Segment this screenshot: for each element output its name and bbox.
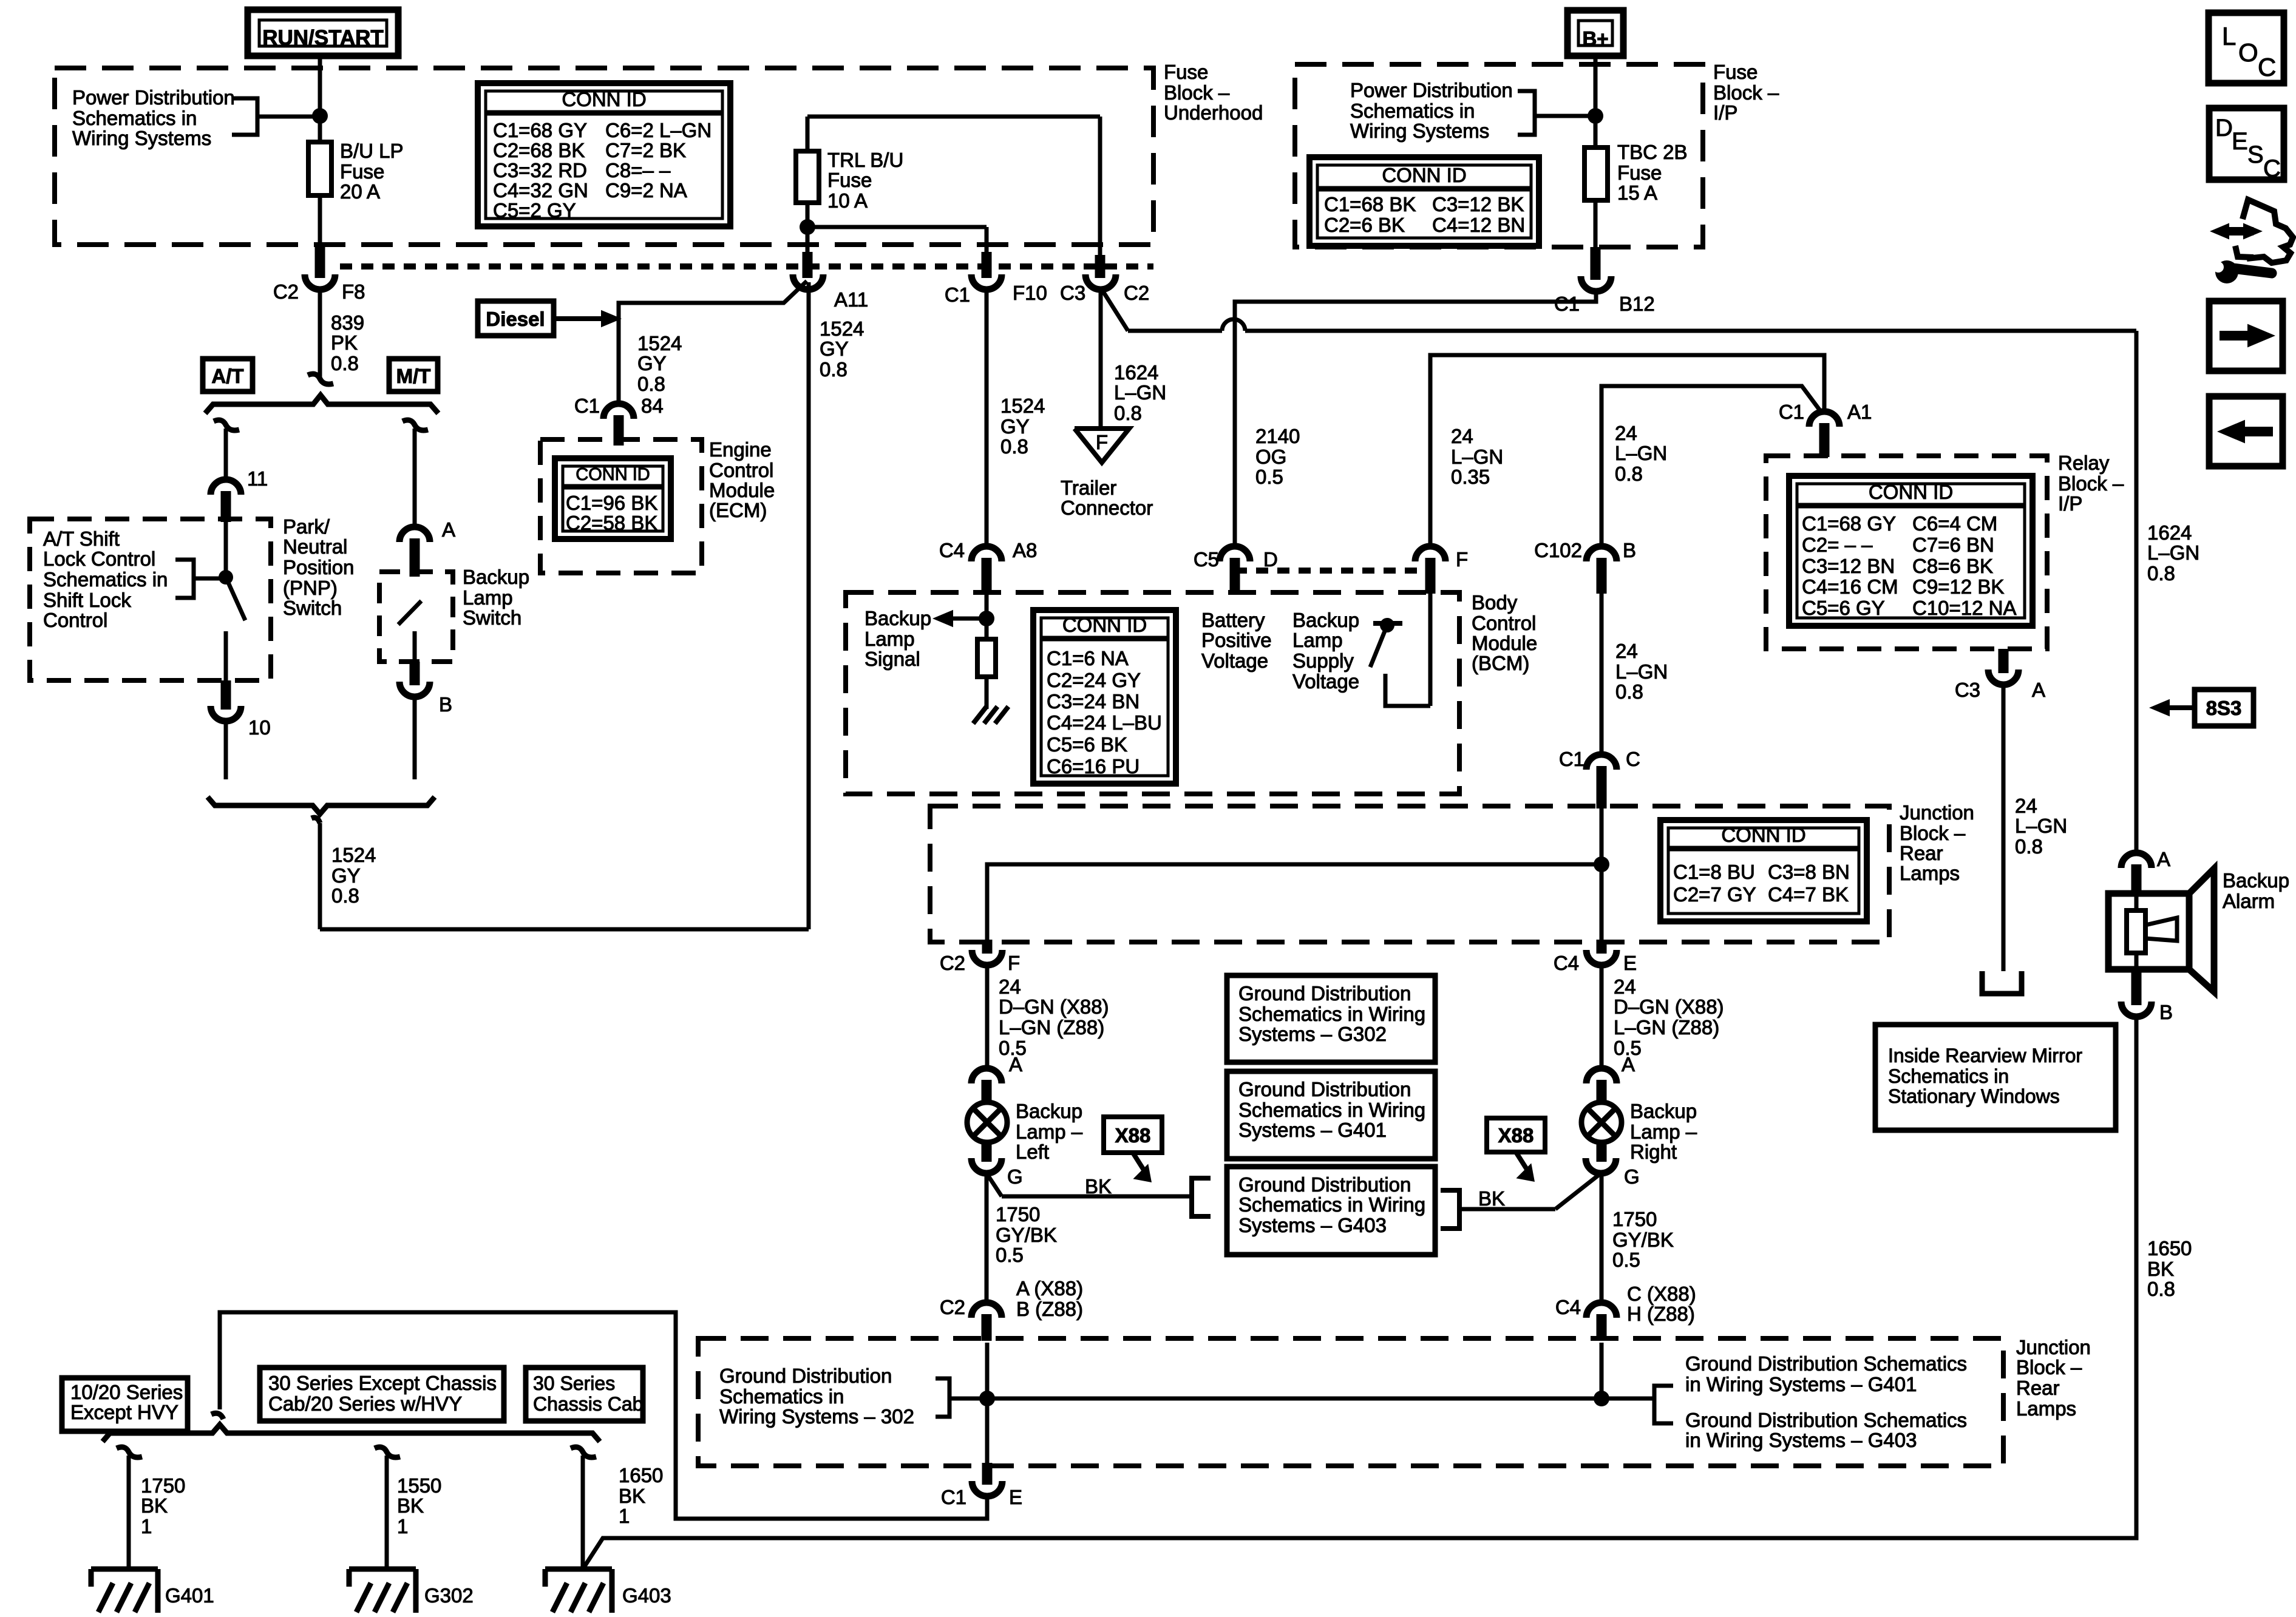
ground G302 xyxy=(349,1569,474,1613)
label A left lamp pin xyxy=(1009,1053,1022,1076)
connector B alarm xyxy=(2121,969,2173,1023)
ground G401 xyxy=(91,1569,214,1613)
svg-text:BK: BK xyxy=(1478,1187,1505,1210)
resistor backup lamp signal xyxy=(977,639,996,709)
label Body Control Module BCM xyxy=(1472,591,1537,674)
svg-text:C: C xyxy=(2258,53,2276,81)
svg-text:Shift Lock: Shift Lock xyxy=(43,589,131,611)
svg-text:0.5: 0.5 xyxy=(1612,1249,1640,1271)
svg-text:0.8: 0.8 xyxy=(2147,562,2175,585)
svg-text:B/U LP: B/U LP xyxy=(340,140,404,162)
svg-text:0.8: 0.8 xyxy=(2015,835,2043,858)
svg-text:C1=96 BK: C1=96 BK xyxy=(566,492,657,514)
svg-text:24: 24 xyxy=(1615,640,1638,662)
ground bus wire xyxy=(949,1391,1654,1406)
svg-text:GY/BK: GY/BK xyxy=(996,1224,1057,1246)
svg-text:OG: OG xyxy=(1255,446,1286,468)
svg-text:L–GN: L–GN xyxy=(1114,381,1166,404)
svg-text:E: E xyxy=(2232,128,2248,155)
svg-text:C7=6 BN: C7=6 BN xyxy=(1912,534,1994,556)
wire alarm return xyxy=(583,1017,2136,1569)
svg-text:Supply: Supply xyxy=(1292,649,1354,672)
connector C1 F10 xyxy=(945,252,1047,546)
svg-text:C1: C1 xyxy=(574,395,600,417)
label wire 1624 L-GN 0.8 right xyxy=(2147,521,2199,585)
svg-text:Block –: Block – xyxy=(1164,81,1230,104)
svg-text:F: F xyxy=(1008,952,1020,974)
svg-text:1: 1 xyxy=(397,1515,408,1537)
svg-text:L–GN (Z88): L–GN (Z88) xyxy=(999,1016,1104,1039)
label Fuse Block IP xyxy=(1713,61,1779,124)
svg-text:A8: A8 xyxy=(1013,539,1037,561)
lamp backup left xyxy=(967,1102,1007,1142)
svg-text:Lamp: Lamp xyxy=(1292,629,1343,651)
svg-text:Signal: Signal xyxy=(864,648,920,670)
lamp backup right xyxy=(1581,1102,1622,1142)
svg-text:C3: C3 xyxy=(1955,679,1980,701)
hook wire end above brace xyxy=(308,374,333,384)
label Ground Distribution 302 xyxy=(719,1364,914,1428)
svg-text:0.8: 0.8 xyxy=(2147,1278,2175,1300)
wire trailer drop xyxy=(1099,290,1103,427)
svg-text:0.8: 0.8 xyxy=(820,358,847,381)
label wire left lamp feed xyxy=(999,975,1109,1059)
label wire 2140 OG 0.5 xyxy=(1255,425,1300,488)
svg-text:1524: 1524 xyxy=(637,332,682,354)
brace transmission split xyxy=(205,395,438,413)
svg-text:0.8: 0.8 xyxy=(1615,680,1643,703)
svg-text:TRL B/U: TRL B/U xyxy=(827,149,903,171)
node junction dot power distribution tap xyxy=(312,108,328,124)
svg-text:Fuse: Fuse xyxy=(1713,61,1758,83)
wire junction internal xyxy=(987,856,1609,942)
box ground dist G403 xyxy=(1227,1167,1435,1255)
svg-text:10: 10 xyxy=(248,716,271,739)
label wire 1750 GY/BK 0.5 right xyxy=(1612,1208,1674,1271)
svg-text:24: 24 xyxy=(999,975,1021,998)
svg-text:C8=6 BK: C8=6 BK xyxy=(1912,555,1993,577)
label BK right xyxy=(1478,1187,1505,1210)
label wire 1524 GY 0.8 diesel xyxy=(637,332,682,395)
svg-text:C6=4 CM: C6=4 CM xyxy=(1912,512,1997,535)
svg-text:Control: Control xyxy=(709,459,773,481)
label Park Neutral Position PNP Switch xyxy=(283,515,354,619)
svg-text:A: A xyxy=(1622,1053,1635,1076)
wire RUN/START to fuse xyxy=(318,56,322,142)
connector C1 A1 relay xyxy=(1779,401,1872,457)
svg-text:C9=2 NA: C9=2 NA xyxy=(605,179,687,202)
svg-text:B12: B12 xyxy=(1619,293,1655,315)
wire TRL fuse lower xyxy=(800,203,987,255)
label wire 1524 GY 0.8 F10 xyxy=(1000,395,1045,458)
svg-text:CONN ID: CONN ID xyxy=(1721,824,1805,846)
svg-text:(PNP): (PNP) xyxy=(283,577,338,599)
svg-text:C10=12 NA: C10=12 NA xyxy=(1912,597,2017,619)
connector 10 xyxy=(211,680,271,779)
svg-text:Fuse: Fuse xyxy=(827,169,872,191)
label Trailer Connector xyxy=(1061,476,1153,519)
dashed box A/T shift lock control xyxy=(30,519,271,680)
svg-text:Wiring Systems: Wiring Systems xyxy=(72,127,211,149)
svg-text:D–GN (X88): D–GN (X88) xyxy=(999,995,1109,1018)
svg-text:B+: B+ xyxy=(1582,27,1608,50)
svg-text:GY/BK: GY/BK xyxy=(1612,1229,1674,1251)
svg-text:Lamps: Lamps xyxy=(1900,862,1960,884)
fuse block underhood dashed box xyxy=(55,68,1153,245)
label wire 24 L-GN 0.8 C102 xyxy=(1615,640,1668,703)
svg-text:CONN ID: CONN ID xyxy=(1382,164,1466,186)
svg-text:0.8: 0.8 xyxy=(637,373,665,395)
label Ground Distribution G403 xyxy=(1685,1409,1967,1451)
svg-text:L–GN: L–GN xyxy=(1451,446,1503,468)
label 11 wire xyxy=(0,0,1,1)
connector C3 A relay xyxy=(1955,649,2045,971)
fuse TRL B/U 10A xyxy=(796,117,1100,255)
svg-text:0.5: 0.5 xyxy=(1255,466,1283,488)
label Backup Lamp Supply Voltage xyxy=(1292,609,1359,693)
svg-text:8S3: 8S3 xyxy=(2206,697,2242,719)
speaker backup alarm xyxy=(2108,869,2214,992)
svg-text:1524: 1524 xyxy=(820,317,864,340)
svg-text:Battery: Battery xyxy=(1201,609,1265,631)
label B/U LP Fuse 20 A xyxy=(340,140,404,203)
dashed box relay block IP xyxy=(1766,456,2047,649)
svg-text:Backup: Backup xyxy=(864,607,931,629)
svg-text:C6=16 PU: C6=16 PU xyxy=(1047,755,1140,778)
connector A left lamp xyxy=(971,1068,1002,1103)
svg-text:C1=68 GY: C1=68 GY xyxy=(493,119,587,141)
connector C1 B12 xyxy=(1554,200,1655,315)
svg-text:S: S xyxy=(2247,141,2264,168)
svg-text:G401: G401 xyxy=(165,1584,214,1607)
svg-text:C2=7 GY: C2=7 GY xyxy=(1673,883,1756,906)
svg-text:24: 24 xyxy=(1614,975,1636,998)
svg-text:Inside Rearview Mirror: Inside Rearview Mirror xyxy=(1888,1045,2082,1066)
svg-text:Relay: Relay xyxy=(2058,452,2110,474)
svg-text:E: E xyxy=(1009,1486,1022,1508)
svg-text:in Wiring Systems – G403: in Wiring Systems – G403 xyxy=(1685,1429,1917,1451)
connector bracket to mirror schematic xyxy=(1982,971,2022,994)
wire B+ to fuse xyxy=(1588,56,1603,147)
svg-text:X88: X88 xyxy=(1115,1124,1151,1147)
svg-text:C2=58 BK: C2=58 BK xyxy=(566,512,657,534)
label Backup Lamp Left xyxy=(1016,1100,1083,1163)
svg-text:10 A: 10 A xyxy=(827,189,868,212)
box 10/20 series except HVY xyxy=(62,1378,188,1431)
wire A/T branch xyxy=(214,420,239,480)
wire BCM F to relay A1 xyxy=(1430,355,1824,546)
label C1 BCM bottom xyxy=(1559,748,1640,770)
svg-text:A: A xyxy=(442,518,455,541)
label 1650 BK 1 xyxy=(619,1464,663,1527)
bracket left lamp ground ref xyxy=(1192,1178,1211,1216)
svg-text:Schematics in: Schematics in xyxy=(1350,100,1475,122)
svg-text:C4=7 BK: C4=7 BK xyxy=(1768,883,1849,906)
svg-text:24: 24 xyxy=(1615,422,1637,444)
svg-text:C4: C4 xyxy=(939,539,965,561)
svg-text:Lamp –: Lamp – xyxy=(1016,1120,1083,1143)
label A right lamp pin xyxy=(1622,1053,1635,1076)
svg-text:Power Distribution: Power Distribution xyxy=(1350,79,1513,101)
svg-text:Backup: Backup xyxy=(1292,609,1359,631)
svg-text:Park/: Park/ xyxy=(283,515,330,538)
svg-text:C8=– –: C8=– – xyxy=(605,159,671,181)
svg-text:Connector: Connector xyxy=(1061,497,1153,519)
ground G403 xyxy=(545,1569,671,1613)
svg-text:0.8: 0.8 xyxy=(1615,463,1643,485)
label Ground Distribution G401 xyxy=(1685,1352,1967,1395)
power node B+ box xyxy=(1567,10,1623,56)
svg-text:Except HVY: Except HVY xyxy=(70,1401,178,1423)
svg-text:Backup: Backup xyxy=(1630,1100,1697,1122)
label A X88 B Z88 left xyxy=(1016,1277,1083,1320)
svg-text:Position: Position xyxy=(283,556,354,578)
dashed box ECM xyxy=(540,439,702,573)
wire merged 1524 GY to right xyxy=(311,282,809,929)
svg-text:C2=68 BK: C2=68 BK xyxy=(493,139,585,161)
svg-text:24: 24 xyxy=(1451,425,1473,447)
svg-text:C1=68 GY: C1=68 GY xyxy=(1802,512,1896,535)
svg-text:Alarm: Alarm xyxy=(2223,890,2275,912)
svg-text:M/T: M/T xyxy=(396,365,431,387)
wire diesel to ECM xyxy=(619,281,807,403)
label wire 24 L-GN 0.8 relay out xyxy=(2015,795,2067,858)
svg-text:Systems – G403: Systems – G403 xyxy=(1238,1214,1387,1236)
connector A11 xyxy=(793,252,868,311)
svg-text:C1: C1 xyxy=(945,283,970,306)
svg-text:Lamp –: Lamp – xyxy=(1630,1120,1697,1143)
svg-text:Wiring Systems: Wiring Systems xyxy=(1350,120,1489,142)
svg-text:1650: 1650 xyxy=(619,1464,663,1486)
box 30 series chassis cab xyxy=(526,1368,643,1421)
svg-text:Left: Left xyxy=(1016,1141,1049,1163)
svg-text:L: L xyxy=(2222,22,2236,50)
connector C4 E junction xyxy=(1554,940,1637,1070)
svg-text:C2: C2 xyxy=(940,952,965,974)
svg-text:Control: Control xyxy=(1472,612,1536,634)
arrow diesel xyxy=(554,310,622,328)
label wire 1624 L-GN 0.8 trailer xyxy=(1114,361,1166,424)
svg-text:BK: BK xyxy=(397,1494,424,1517)
svg-text:L–GN: L–GN xyxy=(2015,815,2067,837)
svg-text:D: D xyxy=(2215,115,2233,141)
svg-text:H (Z88): H (Z88) xyxy=(1627,1303,1695,1325)
svg-text:Voltage: Voltage xyxy=(1201,649,1268,672)
label Fuse Block Underhood xyxy=(1164,61,1263,124)
svg-text:Lock Control: Lock Control xyxy=(43,547,155,570)
icon box LOC xyxy=(2209,13,2284,83)
svg-text:Chassis Cab: Chassis Cab xyxy=(533,1393,643,1415)
svg-text:1: 1 xyxy=(619,1505,630,1527)
fuse F8 B/U LP 20A xyxy=(308,142,331,245)
svg-text:C4: C4 xyxy=(1554,952,1579,974)
svg-text:Switch: Switch xyxy=(463,606,521,629)
label C4 right bottom xyxy=(1555,1296,1581,1318)
svg-text:1624: 1624 xyxy=(2147,521,2192,544)
icon car wrench xyxy=(2210,200,2293,283)
wire right lamp ground xyxy=(1459,1173,1601,1209)
wire C vertical junction xyxy=(1600,808,1604,942)
svg-text:Block –: Block – xyxy=(2058,472,2124,495)
connector C4 A8 xyxy=(939,539,1038,594)
svg-text:20 A: 20 A xyxy=(340,180,380,203)
svg-text:A (X88): A (X88) xyxy=(1016,1277,1083,1300)
label C2 left bottom xyxy=(940,1296,965,1318)
bracket shift lock reference xyxy=(175,560,222,598)
connector A alarm xyxy=(2121,848,2170,893)
svg-text:C5=6 BK: C5=6 BK xyxy=(1047,733,1127,756)
svg-text:C2= – –: C2= – – xyxy=(1802,534,1873,556)
box ground dist G302 xyxy=(1227,975,1435,1062)
svg-text:CONN ID: CONN ID xyxy=(1869,481,1953,503)
svg-text:0.8: 0.8 xyxy=(331,884,359,907)
svg-text:X88: X88 xyxy=(1498,1124,1534,1147)
label F8 xyxy=(342,280,365,303)
brace series split xyxy=(103,1425,600,1442)
svg-text:Backup: Backup xyxy=(463,566,529,588)
svg-text:Ground Distribution: Ground Distribution xyxy=(1238,1173,1411,1196)
svg-text:(BCM): (BCM) xyxy=(1472,652,1529,674)
dotted connector strip underhood xyxy=(340,263,1153,269)
connector C1 C xyxy=(1586,594,1617,808)
svg-text:0.8: 0.8 xyxy=(1114,402,1142,424)
dashed box backup lamp switch xyxy=(379,572,453,662)
svg-text:O: O xyxy=(2238,38,2258,67)
icon box arrow right xyxy=(2209,301,2283,371)
svg-text:1624: 1624 xyxy=(1114,361,1158,384)
brace transmission merge xyxy=(208,797,435,814)
label wire 839 PK 0.8 xyxy=(331,311,364,375)
svg-text:C2=6 BK: C2=6 BK xyxy=(1324,214,1405,236)
label TRL B/U Fuse 10 A xyxy=(827,149,903,212)
svg-text:GY: GY xyxy=(820,337,849,360)
ground BCM internal xyxy=(973,707,1008,724)
svg-text:C5: C5 xyxy=(1194,548,1219,571)
svg-text:1650: 1650 xyxy=(2147,1237,2192,1259)
connector 11 xyxy=(211,467,268,522)
svg-text:Schematics in Wiring: Schematics in Wiring xyxy=(1238,1193,1425,1216)
label Junction Block Rear Lamps xyxy=(1900,801,1974,884)
switch backup lamp manual xyxy=(398,601,421,662)
svg-text:A/T Shift: A/T Shift xyxy=(43,527,120,550)
svg-text:1: 1 xyxy=(141,1515,152,1537)
svg-text:F: F xyxy=(1096,431,1108,453)
svg-text:C3=8 BN: C3=8 BN xyxy=(1768,861,1850,883)
svg-text:30 Series: 30 Series xyxy=(533,1372,615,1394)
svg-text:1524: 1524 xyxy=(331,844,376,866)
svg-text:84: 84 xyxy=(641,395,664,417)
svg-text:I/P: I/P xyxy=(1713,101,1737,124)
svg-text:E: E xyxy=(1623,952,1637,974)
svg-text:Trailer: Trailer xyxy=(1061,476,1116,499)
label Backup Alarm xyxy=(2223,869,2289,912)
svg-text:F10: F10 xyxy=(1013,282,1047,304)
svg-text:11: 11 xyxy=(247,467,268,490)
svg-text:C3=32 RD: C3=32 RD xyxy=(493,159,587,181)
svg-text:Ground Distribution Schematics: Ground Distribution Schematics xyxy=(1685,1409,1967,1431)
svg-text:Systems – G302: Systems – G302 xyxy=(1238,1023,1387,1045)
svg-text:Block –: Block – xyxy=(2016,1356,2082,1378)
label Battery Positive Voltage xyxy=(1201,609,1272,672)
svg-text:L–GN: L–GN xyxy=(2147,541,2199,564)
wire right lamp down xyxy=(1600,1173,1604,1304)
svg-text:Ground Distribution: Ground Distribution xyxy=(1238,1078,1411,1100)
svg-text:Body: Body xyxy=(1472,591,1518,614)
flag box X88 right xyxy=(1487,1118,1545,1182)
svg-text:Rear: Rear xyxy=(1900,842,1943,864)
connector C2 F8 xyxy=(305,245,335,378)
wire ground G401 xyxy=(117,1447,142,1569)
svg-text:Power Distribution: Power Distribution xyxy=(72,86,235,109)
wire C2 to right rail xyxy=(1102,290,2136,854)
fuse block IP dashed box xyxy=(1295,64,1703,247)
wire C102 B to relay A1 xyxy=(1601,386,1821,546)
svg-text:B: B xyxy=(2159,1001,2173,1023)
svg-text:L–GN: L–GN xyxy=(1615,660,1668,683)
svg-text:Fuse: Fuse xyxy=(1617,161,1662,184)
svg-text:C4=24 L–BU: C4=24 L–BU xyxy=(1047,711,1162,734)
svg-text:Underhood: Underhood xyxy=(1164,101,1263,124)
svg-text:Systems – G401: Systems – G401 xyxy=(1238,1119,1387,1141)
svg-text:L–GN: L–GN xyxy=(1615,442,1667,464)
switch PNP park neutral position xyxy=(219,522,245,680)
svg-text:A: A xyxy=(2032,679,2045,701)
svg-text:Ground Distribution: Ground Distribution xyxy=(719,1364,892,1387)
svg-text:1550: 1550 xyxy=(397,1474,441,1497)
svg-text:A11: A11 xyxy=(834,288,868,311)
svg-text:1524: 1524 xyxy=(1000,395,1045,417)
svg-text:C: C xyxy=(1626,748,1640,770)
trailer connector triangle F xyxy=(1075,429,1129,463)
svg-text:Backup: Backup xyxy=(2223,869,2289,892)
conn id table junction xyxy=(1660,820,1867,921)
svg-text:C7=2 BK: C7=2 BK xyxy=(605,139,686,161)
label BK left xyxy=(1085,1175,1112,1198)
connector G left lamp xyxy=(971,1141,1023,1188)
svg-text:Module: Module xyxy=(709,479,775,501)
wire E to series brace xyxy=(220,1312,987,1519)
connector C5 D xyxy=(1194,546,1278,594)
label Backup Lamp Switch xyxy=(463,566,529,629)
svg-text:Lamps: Lamps xyxy=(2016,1397,2076,1420)
connector A right lamp xyxy=(1586,1068,1617,1103)
label Engine Control Module ECM xyxy=(709,438,775,521)
svg-text:C2: C2 xyxy=(1124,282,1149,304)
wire left lamp ground xyxy=(987,1173,1192,1196)
svg-text:C4=16 CM: C4=16 CM xyxy=(1802,575,1898,598)
svg-text:Junction: Junction xyxy=(1900,801,1974,824)
label C2 xyxy=(273,280,299,303)
label Relay Block IP xyxy=(2058,452,2124,515)
svg-text:Lamp: Lamp xyxy=(463,586,513,609)
svg-text:I/P: I/P xyxy=(2058,492,2082,515)
svg-text:Switch: Switch xyxy=(283,597,342,619)
wire ground G302 xyxy=(375,1447,400,1569)
svg-text:2140: 2140 xyxy=(1255,425,1300,447)
connector C2 F junction xyxy=(940,940,1020,1070)
svg-text:0.5: 0.5 xyxy=(996,1244,1024,1266)
switch backup lamp supply xyxy=(1370,594,1430,706)
svg-text:C5=2 GY: C5=2 GY xyxy=(493,199,576,222)
label wire 1524 GY 0.8 A11 xyxy=(820,317,864,381)
svg-text:C1=8 BU: C1=8 BU xyxy=(1673,861,1755,883)
svg-text:30 Series Except Chassis: 30 Series Except Chassis xyxy=(268,1372,497,1394)
label wire right lamp feed xyxy=(1614,975,1724,1059)
svg-text:C1: C1 xyxy=(941,1486,966,1508)
connector C2 left lamp to junction xyxy=(971,1303,1002,1341)
svg-text:Schematics in: Schematics in xyxy=(1888,1065,2009,1087)
bracket 302 xyxy=(936,1378,979,1417)
